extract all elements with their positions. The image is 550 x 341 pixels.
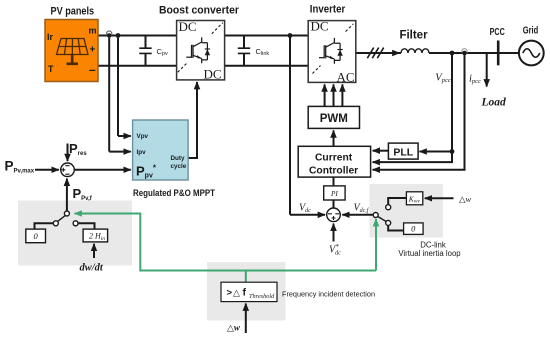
svg-text:Ipv: Ipv: [137, 149, 147, 156]
svg-text:Ir: Ir: [47, 32, 54, 42]
svg-text:dw/dt: dw/dt: [80, 263, 104, 274]
svg-text:Clink: Clink: [256, 47, 270, 57]
svg-text:Filter: Filter: [399, 29, 428, 41]
svg-text:Threshold: Threshold: [249, 293, 275, 300]
svg-text:+: +: [90, 45, 96, 56]
svg-text:m: m: [89, 26, 97, 36]
svg-text:PPv,max: PPv,max: [5, 159, 35, 175]
svg-text:–: –: [89, 63, 96, 77]
svg-text:Frequency incident detection: Frequency incident detection: [282, 290, 375, 299]
svg-text:Vpv: Vpv: [137, 133, 149, 140]
svg-text:Vpcc: Vpcc: [435, 73, 451, 85]
svg-text:Load: Load: [481, 97, 507, 109]
svg-text:Boost converter: Boost converter: [159, 5, 240, 17]
svg-text:Pres: Pres: [69, 141, 87, 157]
svg-text:0: 0: [411, 224, 416, 234]
svg-text:PLL: PLL: [393, 147, 413, 159]
svg-text:Inverter: Inverter: [310, 3, 346, 15]
svg-text:△w: △w: [227, 323, 241, 333]
svg-text:△: △: [233, 287, 240, 297]
svg-text:PCC: PCC: [490, 27, 505, 38]
svg-text:DC: DC: [311, 19, 329, 34]
svg-text:V*dc: V*dc: [329, 243, 341, 257]
svg-text:PV panels: PV panels: [51, 5, 95, 17]
svg-text:AC: AC: [336, 70, 354, 85]
svg-text:0: 0: [33, 231, 38, 241]
svg-text:T: T: [48, 64, 54, 74]
svg-text:DC: DC: [203, 67, 221, 82]
svg-text:Vdc,f: Vdc,f: [354, 203, 370, 215]
svg-text:Grid: Grid: [523, 26, 539, 37]
svg-text:Controller: Controller: [309, 165, 358, 176]
svg-text:△w: △w: [459, 194, 472, 204]
svg-text:Current: Current: [315, 152, 353, 163]
svg-text:Vdc: Vdc: [299, 203, 311, 215]
svg-text:Cpv: Cpv: [157, 47, 168, 57]
svg-text:Duty: Duty: [171, 155, 185, 162]
svg-text:PPv,f: PPv,f: [73, 186, 93, 202]
svg-text:Regulated P&O MPPT: Regulated P&O MPPT: [133, 188, 215, 198]
svg-text:DC: DC: [179, 19, 197, 34]
svg-text:ipcc: ipcc: [469, 74, 481, 86]
svg-text:f: f: [243, 286, 247, 298]
svg-text:PWM: PWM: [320, 113, 348, 125]
svg-text:PI: PI: [330, 189, 338, 198]
svg-text:Virtual inertia loop: Virtual inertia loop: [398, 249, 461, 258]
svg-text:>: >: [227, 287, 233, 298]
svg-text:cycle: cycle: [171, 163, 187, 170]
